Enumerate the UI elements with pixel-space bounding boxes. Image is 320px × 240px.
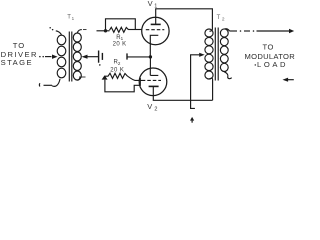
svg-text:LOAD: LOAD — [257, 60, 288, 69]
node R2 left (arrow from T1) — [102, 75, 108, 79]
svg-text:20 K: 20 K — [113, 41, 127, 47]
parasitic choke loop around R2 — [105, 78, 140, 92]
speck before LOAD — [255, 64, 257, 66]
wire cathode link V1 to V2 — [149, 57, 151, 69]
label TO MODULATOR LOAD — [245, 43, 296, 69]
svg-text:V1: V1 — [148, 0, 158, 10]
svg-text:V2: V2 — [147, 102, 157, 112]
B+ feed arrow — [190, 117, 194, 123]
svg-text:R1: R1 — [116, 35, 123, 41]
T1 primary top lead — [49, 27, 61, 35]
V1 plate — [151, 23, 161, 25]
wire T1 secondary top to R1 node — [77, 30, 109, 33]
V2 grid (dashed) — [141, 79, 161, 81]
transformer T1 primary winding — [57, 35, 66, 78]
svg-text:R2: R2 — [114, 60, 121, 66]
transformer T2 primary winding — [205, 29, 213, 79]
svg-text:T2: T2 — [217, 15, 225, 23]
V2 plate — [149, 85, 159, 87]
resistor R2 — [105, 73, 127, 78]
tube V2 envelope — [139, 68, 167, 96]
svg-text:T1: T1 — [67, 15, 74, 21]
svg-text:20 K: 20 K — [110, 68, 124, 74]
wire driver lower (interrupted) — [39, 79, 60, 87]
node cathode junction — [149, 55, 152, 58]
wire T2 primary bottom — [210, 78, 213, 100]
wire driver upper (interrupted) — [39, 55, 57, 59]
transformer T1 core — [69, 32, 72, 82]
arrow from modulator load return — [283, 78, 294, 82]
wire V1 cathode down to junction — [149, 44, 151, 57]
wire R2 to V2 grid — [127, 76, 141, 80]
T1 secondary bottom stub — [77, 77, 85, 80]
wire T2 secondary top (interrupted, arrow to modulator) — [225, 29, 294, 34]
transformer T2 core — [215, 28, 218, 81]
wire junction stub toward bias point — [127, 53, 150, 59]
T2 primary center tap lead — [191, 53, 205, 109]
transformer T2 secondary winding — [220, 29, 228, 72]
T1 secondary center tap lead — [82, 55, 99, 59]
V1 cathode — [150, 35, 158, 43]
wire T2 secondary bottom (interrupted) — [224, 72, 231, 79]
label TO DRIVER STAGE — [1, 41, 38, 67]
V1 grid (dashed) — [146, 29, 165, 31]
svg-text:STAGE: STAGE — [1, 58, 33, 67]
resistor R1 — [110, 27, 129, 32]
tube V1 envelope — [142, 17, 169, 44]
wire R1 to V1 grid — [129, 29, 143, 31]
svg-text:TO: TO — [263, 43, 274, 52]
transformer T1 secondary winding — [73, 33, 81, 80]
svg-text:TO: TO — [13, 41, 25, 50]
interrupted-wire end bars (bias point) — [99, 51, 103, 66]
wire V2 plate to T2 primary bottom — [153, 86, 212, 100]
V2 cathode — [150, 69, 158, 76]
parasitic choke loop around R1 — [106, 19, 136, 31]
wire V1 plate to T2 primary top — [156, 9, 213, 32]
node R1 left junction — [104, 29, 107, 32]
